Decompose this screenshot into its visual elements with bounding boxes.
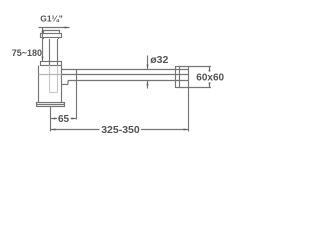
dimension text 325-350 <box>101 124 140 136</box>
svg-text:ø32: ø32 <box>150 54 168 66</box>
extension line left for 65 and 325-350 <box>50 107 52 132</box>
inlet flange lower rect <box>41 34 62 38</box>
svg-text:60x60: 60x60 <box>196 73 224 84</box>
compression nut at wall end <box>176 67 180 88</box>
leader line for G1 1/4 with right arrow <box>39 27 70 29</box>
dimension arrows for diameter 32 across pipe <box>147 56 149 89</box>
inlet flange skirt sides <box>44 38 59 40</box>
dimension line 60x60 vertical with arrows <box>209 67 211 88</box>
inlet flange upper rect (no bottom, shared with lower) <box>44 31 60 34</box>
extension line right for 65 <box>76 70 78 120</box>
svg-text:75~180: 75~180 <box>12 48 42 58</box>
dimension text 60x60 <box>196 73 224 84</box>
extension lines for 60x60 dimension <box>189 67 212 88</box>
svg-text:65: 65 <box>58 114 70 125</box>
dip tube inside body <box>50 66 58 93</box>
trap body bottom cap with inner line <box>37 103 65 107</box>
svg-text:G1¼": G1¼" <box>40 13 62 23</box>
dimension label diameter 32 <box>150 54 168 66</box>
wall flange 60x60 (no left edge, shared with nut) <box>180 67 189 88</box>
trap body cylinder side walls <box>39 66 62 103</box>
dimension line 75~180 vertical with arrows <box>42 28 44 62</box>
dimension line 325-350 with arrows <box>51 129 189 131</box>
outlet pipe middle line <box>39 74 62 76</box>
dimension text 65 <box>58 114 70 125</box>
inlet vertical pipe <box>50 39 58 66</box>
dimension 75~180 text <box>12 48 42 58</box>
trap body top collar nut <box>41 62 62 66</box>
svg-text:325-350: 325-350 <box>101 124 140 136</box>
label G1 1/4 inch thread <box>40 13 62 23</box>
outlet pipe bottom line <box>68 80 189 82</box>
outlet socket step at body <box>62 81 69 85</box>
extension line right for 325-350 below wall flange <box>188 88 190 132</box>
dimension line 65 with arrows <box>51 118 77 120</box>
outlet pipe top line <box>62 69 189 71</box>
